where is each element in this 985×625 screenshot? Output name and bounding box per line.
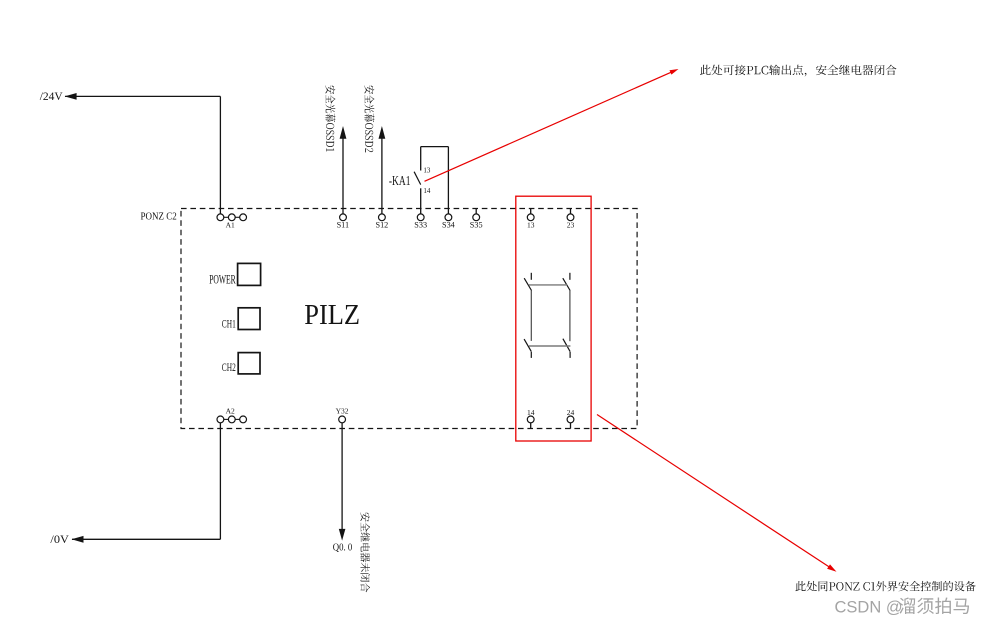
contact 23-24 fixed tick top: [569, 273, 571, 280]
wire contact left vertical: [530, 291, 532, 341]
wire KA1 upper: [420, 147, 422, 171]
arrowhead Y32 down: [339, 529, 346, 541]
mechanical link top: [529, 284, 567, 286]
contact 24 blade bottom: [563, 339, 570, 352]
svg-text:S35: S35: [470, 221, 483, 230]
wire loop top: [421, 146, 449, 148]
svg-text:POWER: POWER: [209, 274, 236, 287]
contact 23-24 blade: [563, 278, 570, 290]
wire S35 stub: [475, 209, 477, 215]
arrowhead 0V: [72, 536, 84, 543]
svg-text:14: 14: [423, 187, 431, 195]
contact KA1 blade: [414, 172, 421, 185]
svg-text:-KA1: -KA1: [389, 172, 411, 188]
red highlight box contacts: [516, 196, 591, 441]
svg-text:PONZ C2: PONZ C2: [141, 211, 177, 223]
wire A2 vertical: [219, 423, 221, 540]
red leader line to PONZ C1 note: [597, 415, 834, 570]
wire/arrow OSSD1: [342, 139, 344, 214]
wire contact right vertical: [569, 291, 571, 342]
indicator CH2: [238, 353, 260, 374]
svg-text:A1: A1: [226, 220, 235, 229]
terminal A1: [217, 214, 224, 221]
note 此处同PONZ C1外界安全控制的设备: [795, 581, 975, 591]
arrowhead 24V: [65, 93, 77, 100]
terminal 13: [527, 214, 534, 221]
label 安全光幕OSSD2 (rotated): [364, 85, 374, 152]
label 安全继电器未闭合 (rotated): [360, 512, 370, 592]
svg-text:S33: S33: [414, 221, 427, 230]
terminal S35: [473, 214, 480, 221]
terminal S12: [379, 214, 386, 221]
wire loop right to S34: [447, 147, 449, 214]
terminal S11: [340, 214, 347, 221]
watermark 溜须拍马: [899, 597, 969, 614]
wire 0V horizontal: [72, 538, 220, 540]
relay PONZ C2 dashed outline: [181, 209, 637, 429]
svg-text:24: 24: [567, 408, 575, 417]
indicator CH1: [238, 308, 260, 330]
terminal 23: [567, 214, 574, 221]
terminal S33: [417, 214, 424, 221]
svg-text:CH1: CH1: [222, 318, 236, 331]
wire 24V vertical to A1: [219, 96, 221, 213]
svg-text:S11: S11: [337, 221, 349, 230]
wire/arrow OSSD2: [381, 139, 383, 214]
svg-text:S12: S12: [376, 221, 389, 230]
svg-text:A2: A2: [226, 406, 235, 415]
terminal S34: [445, 214, 452, 221]
svg-text:PILZ: PILZ: [304, 299, 360, 330]
note 此处可接PLC输出点，安全继电器闭合: [700, 65, 897, 77]
svg-text:23: 23: [567, 221, 575, 230]
svg-text:/24V: /24V: [40, 90, 63, 103]
svg-text:Q0. 0: Q0. 0: [333, 543, 353, 554]
svg-text:S34: S34: [442, 221, 455, 230]
svg-text:/0V: /0V: [50, 532, 69, 546]
terminal 14: [527, 416, 534, 423]
contact 13-14 fixed tick top: [530, 273, 532, 280]
svg-text:13: 13: [527, 221, 535, 230]
red arrowhead 2: [827, 564, 836, 571]
wire Y32 output: [341, 423, 343, 532]
red leader line to PLC note: [425, 70, 676, 181]
wire S33 riser: [420, 188, 422, 214]
svg-text:Y32: Y32: [336, 406, 349, 415]
wire 24V horizontal: [65, 95, 220, 97]
mechanical link bottom: [529, 345, 570, 347]
red arrowhead 1: [670, 69, 679, 75]
terminal 24: [567, 416, 574, 423]
terminal A2: [217, 416, 224, 423]
label 安全光幕OSSD1 (rotated): [325, 85, 335, 151]
contact 14 tick bottom: [530, 352, 532, 358]
svg-text:CH2: CH2: [222, 361, 236, 374]
contact 13-14 blade: [524, 278, 531, 290]
svg-text:14: 14: [527, 408, 535, 417]
svg-text:13: 13: [423, 166, 431, 174]
svg-text:CSDN @: CSDN @: [835, 598, 903, 616]
terminal Y32: [339, 416, 346, 423]
indicator POWER: [238, 263, 261, 285]
contact 24 tick bottom: [569, 352, 571, 358]
contact 14 blade bottom: [524, 339, 531, 352]
